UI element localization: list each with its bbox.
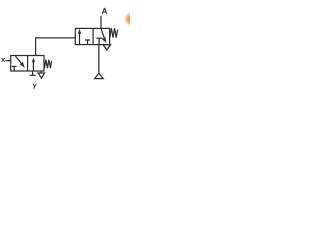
valve V1 left-box diagonal flow arrow xyxy=(15,56,24,68)
supply source triangle xyxy=(95,73,104,78)
valve V2 left-box blocked port T xyxy=(85,40,90,45)
valve V1 exhaust triangle xyxy=(38,71,45,78)
valve V2 return spring xyxy=(110,28,118,37)
valve V1 left-box blocked port T xyxy=(12,66,17,71)
orange marker dot xyxy=(124,12,139,27)
label y xyxy=(33,84,36,89)
valve V1 divider xyxy=(27,56,29,72)
valve V1 right-box flow arrow xyxy=(32,58,35,72)
label A xyxy=(102,8,107,14)
valve V1 plugged port stub xyxy=(30,71,36,75)
valve V2 right-box blocked port T xyxy=(96,38,102,44)
port A line xyxy=(100,16,102,29)
valve V2 right-box diagonal flow arrow xyxy=(101,29,106,43)
valve V2 body (top-right 3/2 valve) xyxy=(75,28,109,44)
valve V2 exhaust triangle xyxy=(103,45,110,50)
valve V1 return spring xyxy=(44,60,51,68)
wire pilot line from V1 output to V2 xyxy=(36,38,76,56)
supply line to V2 xyxy=(98,45,100,74)
valve V1 body (bottom-left 3/2 valve) xyxy=(11,56,44,72)
valve V2 divider xyxy=(92,28,94,44)
pilot port x line xyxy=(6,60,11,62)
valve V2 left-box flow arrow xyxy=(78,29,81,45)
label x xyxy=(2,58,5,62)
